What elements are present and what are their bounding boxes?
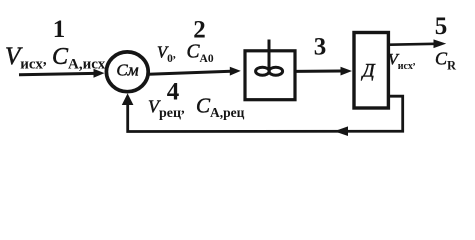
svg-text:Д: Д bbox=[360, 61, 375, 82]
svg-text:2: 2 bbox=[193, 17, 206, 44]
wire stream 1 bbox=[19, 69, 105, 78]
stirrer shaft bbox=[268, 40, 271, 71]
wire stream 5 bbox=[390, 39, 446, 48]
separator Д box bbox=[354, 33, 388, 109]
recycle arrowhead into mixer bbox=[122, 93, 134, 105]
stream 4 label "4" bbox=[167, 79, 180, 106]
stream 1 text V_исх, C_А,исх bbox=[5, 43, 106, 73]
svg-text:4: 4 bbox=[167, 79, 180, 106]
recycle arrowhead pointing left bbox=[334, 126, 348, 136]
stream 4 text V_рец, C_А,рец bbox=[148, 94, 245, 122]
svg-text:3: 3 bbox=[314, 34, 327, 61]
stream 1 label "1" bbox=[53, 16, 66, 43]
svg-text:1: 1 bbox=[53, 16, 66, 43]
stream 2 text V0, CA0 bbox=[157, 42, 214, 66]
wire stream 3 bbox=[296, 67, 352, 76]
stirrer impeller bbox=[256, 67, 283, 75]
recycle wire from separator bbox=[128, 96, 403, 131]
svg-text:См: См bbox=[116, 60, 138, 79]
wire stream 2 bbox=[149, 67, 241, 76]
stream 5 text V_исх, C_R bbox=[388, 49, 457, 73]
stream 5 label "5" bbox=[435, 13, 448, 40]
svg-text:5: 5 bbox=[435, 13, 448, 40]
reactor vessel bbox=[245, 51, 295, 100]
stream 2 label "2" bbox=[193, 17, 206, 44]
mixer circle См bbox=[106, 52, 148, 92]
stream 3 label "3" bbox=[314, 34, 327, 61]
